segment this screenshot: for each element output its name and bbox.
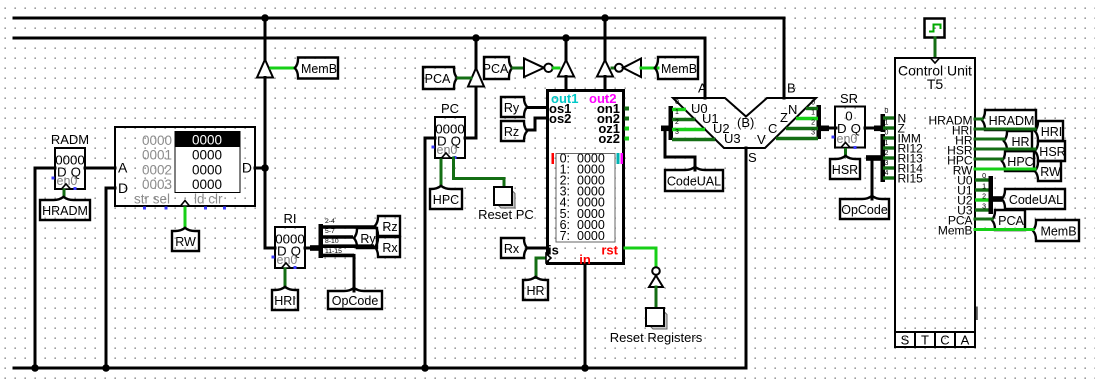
- splitter RI fields: [310, 218, 374, 258]
- svg-text:Ry: Ry: [360, 232, 376, 246]
- svg-text:RI: RI: [284, 211, 297, 226]
- wire CodeUAL to ALU select splitter: [665, 129, 695, 170]
- svg-text:Reset PC: Reset PC: [478, 207, 534, 222]
- svg-text:ld clr: ld clr: [194, 192, 223, 207]
- junction bus-A x566: [562, 34, 570, 42]
- svg-text:0002: 0002: [142, 162, 172, 177]
- wire riser x265 from buffer input down to RI D level: [264, 78, 267, 249]
- svg-text:MemB: MemB: [661, 62, 697, 76]
- wire riser x265 from bus-B junction to tri-state buffer: [264, 18, 267, 60]
- svg-text:HR: HR: [1011, 135, 1029, 149]
- svg-text:PCA: PCA: [483, 62, 509, 76]
- tunnel PCA (inverted enable): [483, 57, 513, 79]
- svg-text:C: C: [940, 333, 949, 348]
- svg-text:0000: 0000: [192, 133, 222, 148]
- register PC: [432, 101, 466, 159]
- tri-state buffer regfile out1 driving bus-A: [558, 60, 574, 77]
- svg-text:HPC: HPC: [433, 193, 459, 207]
- wire bottom bus: [14, 367, 746, 370]
- wire CU RW output: [975, 168, 1035, 171]
- register SR: [832, 91, 866, 149]
- junction at RAM D output riser: [261, 164, 269, 172]
- wire SR Q to NZ splitter: [865, 127, 876, 130]
- splitter SR to N,Z: [874, 108, 895, 132]
- tunnel HRI: [272, 287, 298, 310]
- wire RAM clock to RW tunnel: [184, 208, 187, 228]
- tunnel RW (CU): [1035, 161, 1061, 181]
- svg-text:OpCode: OpCode: [841, 203, 888, 217]
- junction bottom bus x425: [421, 364, 429, 372]
- svg-text:A: A: [961, 333, 970, 348]
- svg-text:U3: U3: [724, 131, 741, 146]
- svg-text:0000: 0000: [142, 133, 172, 148]
- wire from bottom bus to regfile in: [584, 265, 587, 368]
- tunnel HSR (CU): [1035, 141, 1066, 161]
- wire buffer out2 to bus-B: [604, 18, 607, 60]
- splitter ALU flags NZCV: [776, 100, 829, 140]
- wire regfile clock to HR tunnel: [536, 258, 546, 278]
- svg-text:0: 0: [982, 173, 986, 180]
- button Reset Registers: [646, 308, 667, 329]
- tunnel HRI (CU): [1035, 121, 1063, 141]
- svg-text:Ry: Ry: [504, 101, 520, 115]
- tunnel Rx (to regfile is): [501, 238, 527, 258]
- junction bus-B x605: [601, 14, 609, 22]
- svg-text:S: S: [748, 150, 757, 165]
- inverter for out2 enable: [615, 59, 641, 78]
- svg-text:4: 4: [885, 170, 889, 177]
- wire inverter to Reset Registers button: [655, 287, 658, 308]
- svg-text:T: T: [921, 333, 929, 348]
- wire bus-B drop to ALU B input: [783, 18, 786, 98]
- svg-text:0: 0: [885, 108, 889, 115]
- clock component: [925, 19, 945, 38]
- tri-state buffer U-mem driving bus-B: [257, 60, 273, 78]
- tunnel MemB (CU): [1033, 220, 1079, 241]
- svg-text:2-4: 2-4: [325, 218, 335, 225]
- tunnel OpCode (to CU): [840, 196, 889, 219]
- ALU (UAL) block: [673, 81, 816, 166]
- svg-text:3: 3: [982, 204, 986, 211]
- tunnel HR: [523, 277, 548, 300]
- tunnel Ry (to regfile os1): [501, 97, 527, 117]
- wire CU PCA output: [975, 218, 992, 221]
- svg-text:3: 3: [675, 129, 679, 136]
- wire from bottom bus to RAM D input: [106, 188, 115, 368]
- svg-text:0000: 0000: [192, 162, 222, 177]
- svg-text:HRI: HRI: [274, 294, 296, 308]
- svg-text:0000: 0000: [577, 229, 605, 243]
- svg-text:Rz: Rz: [382, 220, 397, 234]
- svg-text:Z: Z: [780, 110, 788, 125]
- wire inverter to out1 buffer enable: [554, 67, 560, 70]
- wire buffer out1 input stub: [565, 77, 568, 90]
- tunnel HPC (CU): [1002, 151, 1034, 171]
- wire PCA to inverter: [513, 67, 524, 70]
- wire RADM enable to HRADM tunnel: [63, 190, 66, 197]
- svg-text:0: 0: [885, 130, 889, 137]
- register file block: [546, 91, 629, 268]
- svg-text:3: 3: [885, 160, 889, 167]
- svg-text:2: 2: [811, 120, 815, 127]
- svg-text:PCA: PCA: [998, 214, 1024, 228]
- wire bus-A drop to ALU A input: [704, 38, 707, 98]
- svg-text:C: C: [768, 121, 777, 136]
- Control Unit block: [895, 58, 975, 348]
- svg-text:RW: RW: [175, 235, 196, 249]
- wire buffer out1 to bus-A: [565, 38, 568, 60]
- RAM memory block: [115, 127, 255, 210]
- tri-state buffer regfile out2 driving bus-B: [597, 60, 613, 77]
- wire CU HR output: [975, 138, 1004, 141]
- wire SR enable to HSR tunnel: [844, 150, 847, 157]
- svg-text:2: 2: [675, 119, 679, 126]
- svg-text:B: B: [787, 81, 796, 96]
- wire CU HSR output: [975, 148, 1035, 151]
- register file contents list: [560, 151, 605, 243]
- svg-text:HRADM: HRADM: [42, 204, 88, 218]
- tunnel MemB (center): [655, 57, 698, 79]
- tunnel CodeUAL (ALU): [665, 167, 723, 191]
- svg-text:0000: 0000: [192, 177, 222, 192]
- svg-text:HRI: HRI: [1041, 125, 1063, 139]
- svg-text:2: 2: [885, 150, 889, 157]
- wire MemB tunnel to inverter: [641, 67, 658, 70]
- wire RAM D output to bus riser: [255, 167, 265, 170]
- svg-text:N: N: [788, 102, 797, 117]
- wire from bottom bus to PC D input: [425, 138, 435, 368]
- wire flags splitter to SR D: [829, 127, 836, 130]
- svg-text:os2: os2: [549, 111, 571, 126]
- svg-text:HR: HR: [526, 284, 544, 298]
- wire ALU S output down to bottom bus: [745, 148, 748, 368]
- svg-text:is: is: [548, 243, 559, 258]
- svg-text:MemB: MemB: [301, 62, 337, 76]
- svg-text:SR: SR: [840, 91, 858, 106]
- svg-text:Rz: Rz: [504, 125, 519, 139]
- svg-text:MemB: MemB: [1040, 225, 1076, 239]
- svg-text:Reset Registers: Reset Registers: [610, 330, 703, 345]
- tunnel CodeUAL (CU): [1002, 189, 1065, 209]
- svg-text:CodeUAL: CodeUAL: [667, 175, 721, 189]
- svg-text:A: A: [118, 160, 128, 176]
- tunnel HRADM (CU): [982, 110, 1036, 130]
- junction bottom bus x585: [581, 364, 589, 372]
- svg-text:1: 1: [885, 120, 889, 127]
- wire CU HRI output: [975, 128, 1035, 131]
- svg-text:0001: 0001: [142, 148, 172, 163]
- svg-text:rst: rst: [601, 243, 618, 258]
- svg-text:D: D: [118, 180, 128, 196]
- svg-text:V: V: [757, 132, 766, 147]
- wire PC Q to tri-state riser: [465, 87, 476, 139]
- svg-text:1: 1: [982, 184, 986, 191]
- tunnel PCA (CU): [992, 210, 1025, 230]
- svg-text:RI15: RI15: [898, 171, 924, 185]
- inverter on Reset Registers: [649, 267, 663, 287]
- svg-text:0: 0: [811, 100, 815, 107]
- wire buffer output to bus-A: [475, 38, 478, 68]
- svg-text:Rx: Rx: [504, 242, 520, 256]
- inverter for out1 enable: [524, 59, 553, 78]
- tunnel Rz (from RI splitter): [375, 216, 400, 236]
- svg-text:0: 0: [675, 99, 679, 106]
- svg-text:0003: 0003: [142, 177, 172, 192]
- svg-text:5-7: 5-7: [325, 228, 335, 235]
- wire CU HRADM output: [975, 118, 982, 121]
- tunnel HSR: [830, 156, 860, 179]
- tunnel Rz (to regfile os2): [501, 121, 527, 141]
- tunnel Ry (from RI splitter): [354, 228, 377, 248]
- wire Rx to is input: [527, 247, 546, 250]
- svg-text:Rx: Rx: [382, 241, 398, 255]
- junction bus-B x265: [261, 14, 269, 22]
- svg-text:RW: RW: [1040, 165, 1061, 179]
- wire regfile rst to reset inverter: [625, 248, 656, 267]
- wire buffer out2 input stub: [604, 77, 607, 90]
- junction bus-A x476: [472, 34, 480, 42]
- svg-text:8-10: 8-10: [325, 238, 339, 245]
- wire OpCode tunnel to opcode splitter: [872, 158, 876, 199]
- wire riser to RI D input: [265, 247, 275, 250]
- svg-text:1: 1: [811, 110, 815, 117]
- wire RI Q to splitter: [305, 247, 312, 250]
- tunnel HPC: [430, 186, 462, 209]
- wire enable MemB to buffer: [271, 67, 295, 70]
- wire RI splitter field 11-15 to OpCode tunnel: [353, 255, 356, 291]
- tunnel PCA (enable of PC buffer): [423, 67, 457, 89]
- svg-text:T5: T5: [927, 76, 944, 92]
- button Reset PC: [494, 187, 515, 208]
- svg-text:oz2: oz2: [598, 131, 620, 146]
- pin marker on Control Unit right edge: [976, 307, 978, 321]
- svg-text:S: S: [901, 333, 910, 348]
- wire Ry to os1: [528, 106, 546, 109]
- tunnel Rx (from RI splitter): [375, 237, 400, 257]
- svg-text:str sel: str sel: [134, 192, 170, 207]
- wire out2 buffer enable to inverter: [612, 67, 615, 70]
- junction bottom bus x35: [31, 364, 39, 372]
- svg-text:0000: 0000: [192, 148, 222, 163]
- wire clock to Control Unit: [934, 38, 937, 58]
- wire bus-A horizontal (top bus 2): [14, 37, 705, 40]
- svg-text:PCA: PCA: [425, 72, 451, 86]
- tunnel RW: [172, 228, 199, 251]
- svg-text:OpCode: OpCode: [332, 294, 379, 308]
- wire CU HPC output: [975, 158, 1002, 161]
- svg-text:(B): (B): [737, 115, 754, 130]
- svg-text:HPC: HPC: [1007, 155, 1033, 169]
- wire CU MemB output: [975, 228, 1033, 231]
- wire from bottom bus to RADM D input: [35, 168, 55, 368]
- svg-text:RADM: RADM: [51, 132, 89, 147]
- tunnel HR (CU): [1004, 131, 1032, 151]
- junction bottom bus x106: [102, 364, 110, 372]
- svg-text:HRADM: HRADM: [989, 114, 1035, 128]
- svg-text:2: 2: [982, 194, 986, 201]
- splitter OpCode to IMM,RI12-RI15: [866, 130, 895, 183]
- splitter U0-U3 to CodeUAL: [975, 173, 1002, 214]
- register RI: [272, 211, 306, 269]
- wire PC enable to HPC tunnel: [440, 160, 443, 186]
- register RADM: [51, 132, 89, 190]
- svg-text:11-15: 11-15: [325, 248, 342, 255]
- svg-text:D: D: [242, 160, 252, 176]
- wire Rz to os2: [527, 118, 546, 130]
- wire bus-B horizontal (top bus 1): [14, 17, 784, 20]
- wire PCA tunnel to PC buffer enable: [458, 77, 471, 80]
- tunnel OpCode (from RI): [328, 288, 382, 309]
- wire RI enable to HRI tunnel: [284, 269, 287, 287]
- svg-text:CodeUAL: CodeUAL: [1009, 193, 1063, 207]
- wire PC reset to Reset PC button: [454, 158, 505, 188]
- svg-text:1: 1: [675, 109, 679, 116]
- tunnel HRADM: [40, 197, 90, 220]
- svg-text:7:: 7:: [560, 229, 570, 243]
- svg-text:PC: PC: [441, 101, 459, 116]
- wire RADM Q to RAM A input: [85, 167, 115, 170]
- svg-text:HSR: HSR: [832, 163, 858, 177]
- svg-text:3: 3: [811, 130, 815, 137]
- splitter ALU select U0-U3: [661, 99, 715, 140]
- svg-text:1: 1: [885, 140, 889, 147]
- tri-state buffer PC driving bus-A: [468, 68, 484, 87]
- svg-text:HSR: HSR: [1039, 145, 1065, 159]
- svg-text:A: A: [698, 81, 707, 96]
- svg-text:MemB: MemB: [938, 223, 973, 237]
- tunnel MemB (left): [295, 58, 338, 79]
